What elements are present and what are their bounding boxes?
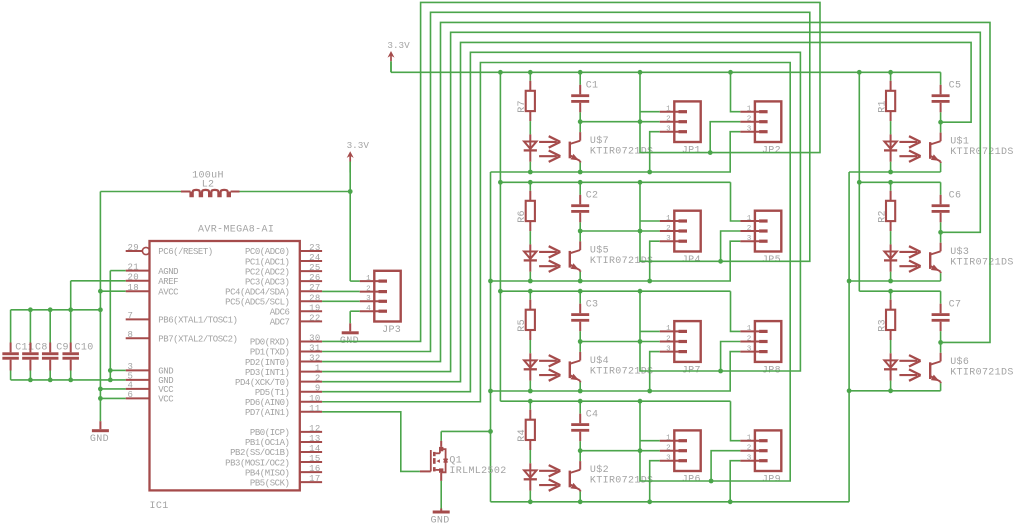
svg-text:KTIR0721DS: KTIR0721DS [950, 147, 1014, 158]
svg-text:PC5(ADC5/SCL): PC5(ADC5/SCL) [225, 297, 289, 307]
svg-text:PB7(XTAL2/TOSC2): PB7(XTAL2/TOSC2) [158, 335, 237, 345]
svg-text:PD2(INT0): PD2(INT0) [245, 358, 290, 368]
svg-text:R5: R5 [517, 319, 528, 332]
svg-text:AVCC: AVCC [158, 287, 179, 297]
svg-text:3.3V: 3.3V [387, 40, 410, 51]
svg-text:3: 3 [747, 235, 752, 243]
svg-text:R7: R7 [517, 100, 528, 113]
svg-text:22: 22 [309, 313, 321, 323]
svg-text:3: 3 [666, 235, 671, 243]
svg-text:R6: R6 [517, 210, 528, 223]
svg-text:18: 18 [128, 283, 140, 293]
svg-text:GND: GND [90, 434, 109, 445]
svg-text:R2: R2 [877, 210, 888, 223]
svg-text:2: 2 [666, 445, 671, 453]
svg-text:2: 2 [315, 374, 321, 384]
svg-text:2: 2 [666, 116, 671, 124]
svg-text:1: 1 [747, 215, 752, 223]
svg-text:KTIR0721DS: KTIR0721DS [950, 257, 1014, 268]
svg-text:C8: C8 [35, 342, 48, 353]
svg-text:U$7: U$7 [590, 135, 609, 147]
svg-text:KTIR0721DS: KTIR0721DS [950, 367, 1014, 378]
svg-text:1: 1 [366, 275, 371, 283]
svg-text:21: 21 [128, 262, 140, 272]
svg-text:2: 2 [747, 225, 752, 233]
svg-text:26: 26 [309, 273, 321, 283]
svg-text:AGND: AGND [158, 267, 178, 277]
svg-text:R4: R4 [517, 429, 528, 442]
svg-text:25: 25 [309, 263, 321, 273]
svg-text:Q1: Q1 [449, 455, 462, 466]
svg-text:2: 2 [666, 225, 671, 233]
svg-text:PB2(SS/OC1B): PB2(SS/OC1B) [230, 448, 289, 458]
svg-text:3: 3 [666, 126, 671, 134]
svg-text:8: 8 [128, 330, 134, 340]
svg-text:3: 3 [128, 362, 134, 372]
svg-text:U$1: U$1 [950, 136, 969, 148]
svg-text:U$6: U$6 [950, 356, 969, 368]
svg-text:3: 3 [747, 455, 752, 463]
svg-text:VCC: VCC [158, 395, 174, 405]
svg-text:GND: GND [431, 515, 450, 526]
svg-text:28: 28 [309, 293, 321, 303]
svg-text:24: 24 [309, 253, 321, 263]
svg-text:C10: C10 [75, 342, 94, 353]
svg-text:JP2: JP2 [762, 146, 781, 157]
svg-text:PB5(SCK): PB5(SCK) [250, 478, 290, 488]
svg-text:C4: C4 [586, 409, 599, 420]
svg-text:PD6(AIN0): PD6(AIN0) [245, 398, 290, 408]
svg-text:JP9: JP9 [762, 475, 781, 486]
svg-text:PD1(TXD): PD1(TXD) [250, 348, 290, 358]
svg-text:PB6(XTAL1/TOSC1): PB6(XTAL1/TOSC1) [158, 316, 237, 326]
svg-text:PD0(RXD): PD0(RXD) [250, 338, 290, 348]
svg-text:3: 3 [747, 345, 752, 353]
svg-text:3: 3 [666, 345, 671, 353]
svg-text:PD4(XCK/T0): PD4(XCK/T0) [235, 378, 289, 388]
svg-text:C2: C2 [586, 191, 599, 202]
svg-text:JP6: JP6 [682, 475, 701, 486]
svg-text:2: 2 [747, 335, 752, 343]
svg-text:7: 7 [128, 311, 134, 321]
svg-text:ADC7: ADC7 [270, 318, 290, 328]
svg-text:GND: GND [158, 367, 173, 377]
svg-text:L2: L2 [202, 179, 215, 190]
svg-text:PC4(ADC4/SDA): PC4(ADC4/SDA) [225, 287, 289, 297]
svg-text:AVR-MEGA8-AI: AVR-MEGA8-AI [198, 225, 274, 236]
svg-text:C1: C1 [586, 81, 599, 92]
svg-text:JP3: JP3 [382, 325, 401, 336]
svg-text:27: 27 [309, 283, 321, 293]
svg-text:IC1: IC1 [150, 501, 169, 512]
svg-text:JP1: JP1 [682, 146, 701, 157]
svg-text:1: 1 [666, 435, 671, 443]
svg-text:1: 1 [666, 325, 671, 333]
svg-text:VCC: VCC [158, 385, 174, 395]
svg-text:PD7(AIN1): PD7(AIN1) [245, 408, 290, 418]
svg-text:1: 1 [315, 364, 321, 374]
svg-text:C7: C7 [949, 299, 962, 310]
svg-text:11: 11 [309, 404, 321, 414]
svg-text:14: 14 [309, 444, 321, 454]
svg-text:PB4(MISO): PB4(MISO) [245, 468, 290, 478]
svg-text:IRLML2502: IRLML2502 [449, 466, 506, 477]
svg-text:PC2(ADC2): PC2(ADC2) [245, 267, 290, 277]
svg-text:C6: C6 [949, 191, 962, 202]
svg-text:3: 3 [666, 455, 671, 463]
svg-text:PC0(ADC0): PC0(ADC0) [245, 247, 290, 257]
svg-text:PB1(OC1A): PB1(OC1A) [245, 438, 290, 448]
svg-text:3: 3 [366, 295, 371, 303]
svg-text:17: 17 [309, 474, 321, 484]
svg-text:13: 13 [309, 434, 321, 444]
svg-text:2: 2 [747, 445, 752, 453]
svg-text:PB0(ICP): PB0(ICP) [250, 428, 290, 438]
svg-text:C11: C11 [15, 342, 34, 353]
svg-text:1: 1 [666, 215, 671, 223]
svg-text:1: 1 [747, 435, 752, 443]
svg-text:R3: R3 [877, 319, 888, 332]
svg-text:PD5(T1): PD5(T1) [255, 388, 290, 398]
svg-text:10: 10 [309, 394, 321, 404]
svg-text:1: 1 [747, 325, 752, 333]
svg-text:15: 15 [309, 454, 321, 464]
svg-text:C9: C9 [56, 342, 69, 353]
svg-text:U$2: U$2 [590, 464, 609, 476]
svg-text:19: 19 [309, 303, 321, 313]
svg-text:U$5: U$5 [590, 245, 609, 257]
svg-text:1: 1 [666, 106, 671, 114]
svg-text:30: 30 [309, 333, 321, 343]
svg-text:3: 3 [747, 126, 752, 134]
svg-text:6: 6 [128, 390, 134, 400]
svg-text:2: 2 [747, 116, 752, 124]
svg-text:PC6(/RESET): PC6(/RESET) [158, 247, 212, 257]
svg-text:C5: C5 [949, 81, 962, 92]
svg-text:2: 2 [666, 335, 671, 343]
svg-text:4: 4 [366, 305, 371, 313]
svg-text:29: 29 [128, 243, 140, 253]
svg-text:PB3(MOSI/OC2): PB3(MOSI/OC2) [225, 458, 289, 468]
svg-text:16: 16 [309, 464, 321, 474]
svg-text:PC1(ADC1): PC1(ADC1) [245, 257, 290, 267]
svg-text:9: 9 [315, 384, 321, 394]
svg-text:AREF: AREF [158, 277, 178, 287]
svg-text:R1: R1 [877, 100, 888, 113]
svg-text:12: 12 [309, 424, 321, 434]
svg-text:PD3(INT1): PD3(INT1) [245, 368, 290, 378]
svg-text:3.3V: 3.3V [347, 140, 370, 151]
svg-text:23: 23 [309, 243, 321, 253]
svg-text:1: 1 [747, 106, 752, 114]
svg-text:U$4: U$4 [590, 355, 609, 367]
svg-text:20: 20 [128, 273, 140, 283]
svg-text:ADC6: ADC6 [270, 308, 290, 318]
svg-text:KTIR0721DS: KTIR0721DS [590, 367, 654, 378]
svg-text:PC3(ADC3): PC3(ADC3) [245, 277, 290, 287]
svg-text:2: 2 [366, 285, 371, 293]
svg-text:C3: C3 [586, 299, 599, 310]
svg-text:31: 31 [309, 344, 321, 354]
svg-text:4: 4 [128, 381, 134, 391]
svg-text:32: 32 [309, 354, 321, 364]
svg-text:U$3: U$3 [950, 246, 969, 258]
